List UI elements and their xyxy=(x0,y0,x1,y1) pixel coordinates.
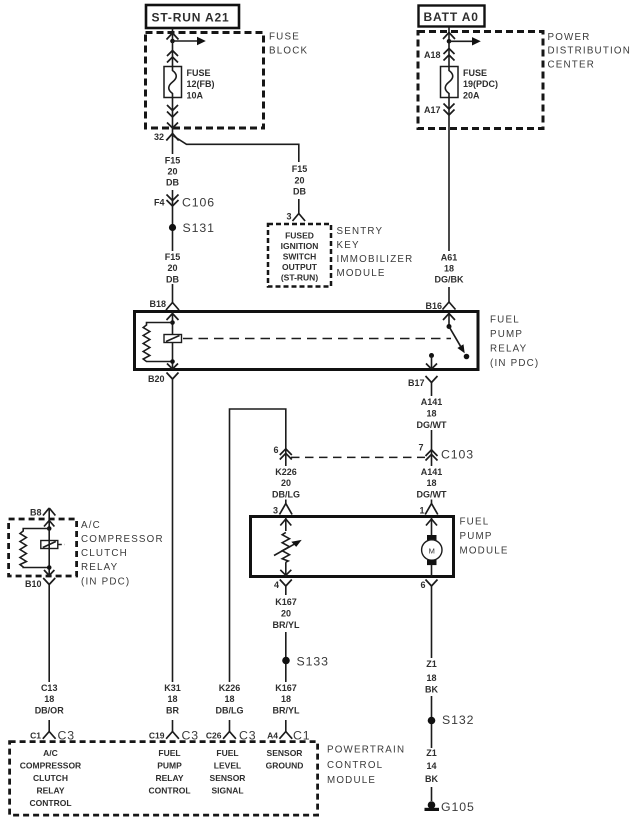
svg-text:Z1: Z1 xyxy=(426,659,437,669)
power distribution center dashed box xyxy=(418,32,543,129)
B20 exit arrow down xyxy=(167,364,178,370)
svg-text:14: 14 xyxy=(426,761,436,771)
coil bottom junction dot xyxy=(170,359,175,364)
C103 cavity 7 connector symbol xyxy=(426,450,438,461)
svg-text:CENTER: CENTER xyxy=(548,59,595,70)
relay title FUEL PUMP RELAY (IN PDC) xyxy=(490,315,539,370)
svg-text:1: 1 xyxy=(419,506,424,516)
svg-text:BR/YL: BR/YL xyxy=(273,620,301,630)
wire label Z1 14 BK xyxy=(420,748,443,787)
svg-text:B18: B18 xyxy=(149,299,166,309)
wire pin 4 down to PCM A4 xyxy=(285,586,287,732)
svg-text:BK: BK xyxy=(425,685,438,695)
PCM pin C19 connector symbol xyxy=(166,732,179,739)
svg-text:G105: G105 xyxy=(441,800,475,814)
wire B20 down to PCM C19 xyxy=(172,379,174,732)
A/C relay coil top dot xyxy=(47,526,52,531)
svg-text:B17: B17 xyxy=(408,378,425,388)
svg-text:S131: S131 xyxy=(183,221,215,235)
PCM pin A4 connector symbol xyxy=(279,732,292,739)
wire label K167 20 BR/YL xyxy=(268,595,304,632)
svg-text:18: 18 xyxy=(426,673,436,683)
svg-text:B10: B10 xyxy=(25,579,42,589)
svg-text:DG/WT: DG/WT xyxy=(417,420,447,430)
svg-text:18: 18 xyxy=(281,694,291,704)
fuse value labels FUSE 12(FB) 10A xyxy=(187,68,215,101)
wire label K31 18 BR xyxy=(158,682,187,720)
pin 3 entry arrow up xyxy=(280,519,291,526)
wire down from 32 xyxy=(172,128,174,303)
wire label A61 18 DG/BK xyxy=(432,251,466,287)
svg-text:18: 18 xyxy=(224,694,234,704)
svg-text:FUEL: FUEL xyxy=(158,748,180,758)
fuse value labels FUSE 19(PDC) 20A xyxy=(463,68,498,101)
junction dot xyxy=(170,39,175,44)
svg-text:SENSOR: SENSOR xyxy=(267,748,303,758)
svg-text:K31: K31 xyxy=(164,683,181,693)
B17 terminal dot xyxy=(429,353,434,358)
svg-text:ST-RUN A21: ST-RUN A21 xyxy=(152,11,230,25)
pin 1 entry arrow up xyxy=(426,519,437,526)
svg-text:Z1: Z1 xyxy=(426,748,437,758)
svg-text:BLOCK: BLOCK xyxy=(269,46,308,57)
svg-text:K167: K167 xyxy=(275,683,297,693)
svg-text:PUMP: PUMP xyxy=(460,531,493,542)
label POWER DISTRIBUTION CENTER xyxy=(548,32,632,70)
connector B20 symbol (Y) xyxy=(167,373,179,380)
wire pin 6 down to ground G105 xyxy=(431,586,433,801)
svg-text:CLUTCH: CLUTCH xyxy=(33,773,68,783)
connector chevrons A17 (double, down) xyxy=(444,104,455,116)
svg-text:IMMOBILIZER: IMMOBILIZER xyxy=(337,254,414,265)
PCM inner text A/C COMPRESSOR CLUTCH RELAY CONTROL xyxy=(20,748,81,808)
switch blade with arrowhead xyxy=(449,327,465,354)
svg-text:20: 20 xyxy=(281,609,291,619)
svg-text:DB/OR: DB/OR xyxy=(35,706,65,716)
svg-text:C1: C1 xyxy=(30,731,41,741)
svg-text:DB/LG: DB/LG xyxy=(272,490,300,500)
svg-text:K226: K226 xyxy=(219,683,241,693)
svg-text:10A: 10A xyxy=(187,91,204,101)
wire pin3 to sensor xyxy=(285,517,287,531)
svg-text:SENSOR: SENSOR xyxy=(210,773,246,783)
wire motor to pin 6 xyxy=(431,565,433,577)
splice S131 xyxy=(169,221,215,235)
svg-text:18: 18 xyxy=(167,694,177,704)
switch contact dot xyxy=(464,354,470,360)
wire label C13 18 DB/OR xyxy=(31,682,68,720)
relay coil (zigzag) xyxy=(143,323,172,362)
ground G105 xyxy=(425,800,475,814)
svg-text:SIGNAL: SIGNAL xyxy=(211,786,243,796)
power source box ST-RUN A21 xyxy=(146,5,239,28)
A/C compressor clutch relay dashed box xyxy=(9,519,77,576)
svg-text:FUSED: FUSED xyxy=(285,231,314,241)
wire label F15 20 DB (branch to SKIM) xyxy=(286,162,312,199)
wire to fuse 12 xyxy=(172,41,174,67)
wire ST-RUN A21 to fuse block xyxy=(172,28,174,41)
svg-text:BATT A0: BATT A0 xyxy=(424,10,479,24)
svg-text:M: M xyxy=(429,546,435,555)
svg-text:COMPRESSOR: COMPRESSOR xyxy=(81,534,164,545)
svg-text:A18: A18 xyxy=(424,50,441,60)
svg-text:A141: A141 xyxy=(421,397,443,407)
svg-text:A4: A4 xyxy=(267,731,278,741)
switch pivot dot xyxy=(447,324,452,329)
branch arrow right xyxy=(449,37,481,45)
relay contact (box with diagonal) xyxy=(164,335,182,343)
fuse 12(FB) symbol xyxy=(164,67,182,98)
connector B10 symbol (Y) xyxy=(43,578,55,585)
PCM pin C26 connector symbol xyxy=(223,732,236,739)
PCM title POWERTRAIN CONTROL MODULE xyxy=(327,745,405,787)
svg-text:OUTPUT: OUTPUT xyxy=(282,262,318,272)
svg-text:K226: K226 xyxy=(275,467,297,477)
svg-text:A/C: A/C xyxy=(81,520,101,531)
connector B8 symbol xyxy=(43,508,55,516)
svg-text:F4: F4 xyxy=(154,198,165,208)
svg-text:MODULE: MODULE xyxy=(460,546,509,557)
svg-text:B20: B20 xyxy=(148,374,165,384)
svg-text:SENTRY: SENTRY xyxy=(337,226,384,237)
A/C relay contact (box with diagonal) xyxy=(41,541,65,549)
wire B10 down to PCM C1 xyxy=(48,585,50,732)
svg-text:A141: A141 xyxy=(421,467,443,477)
junction dot xyxy=(447,39,452,44)
svg-text:K167: K167 xyxy=(275,597,297,607)
svg-text:CLUTCH: CLUTCH xyxy=(81,548,128,559)
svg-text:MODULE: MODULE xyxy=(327,775,376,786)
svg-text:C106: C106 xyxy=(182,196,215,210)
svg-text:SWITCH: SWITCH xyxy=(283,252,317,262)
svg-text:S132: S132 xyxy=(442,713,474,727)
PCM inner text FUEL LEVEL SENSOR SIGNAL xyxy=(210,748,246,796)
SKIM inner text FUSED IGNITION SWITCH OUTPUT (ST-RUN) xyxy=(281,231,319,283)
svg-text:4: 4 xyxy=(274,580,279,590)
svg-text:DB/LG: DB/LG xyxy=(216,706,244,716)
label FUSE BLOCK xyxy=(269,32,308,57)
branch wire from 32 to SKIM xyxy=(174,136,299,214)
branch arrow right xyxy=(173,37,206,45)
svg-text:3: 3 xyxy=(286,212,291,222)
svg-text:6: 6 xyxy=(273,445,278,455)
svg-text:GROUND: GROUND xyxy=(266,761,304,771)
SKIM pin 3 connector symbol xyxy=(293,214,306,222)
svg-text:F15: F15 xyxy=(292,164,308,174)
pin 6 connector symbol (Y) xyxy=(426,580,438,587)
pin 4 chevrons (double, down) xyxy=(280,570,291,576)
svg-text:FUEL: FUEL xyxy=(490,315,520,326)
svg-text:7: 7 xyxy=(418,443,423,453)
A/C relay entry arrow up xyxy=(44,521,54,527)
svg-text:RELAY: RELAY xyxy=(36,786,64,796)
fuel pump relay box xyxy=(135,312,479,370)
svg-text:MODULE: MODULE xyxy=(337,268,386,279)
svg-text:A61: A61 xyxy=(441,253,458,263)
svg-text:6: 6 xyxy=(420,580,425,590)
wire C103 to module pin 1 xyxy=(431,449,433,504)
coil top junction dot xyxy=(170,320,175,325)
svg-text:BR: BR xyxy=(166,706,179,716)
svg-text:DG/BK: DG/BK xyxy=(435,275,465,285)
svg-text:B8: B8 xyxy=(30,508,42,518)
A/C relay title xyxy=(81,520,164,588)
B16 entry arrow up xyxy=(443,314,455,321)
PCM pin C1 connector symbol xyxy=(43,732,56,739)
arrow up into fuse block xyxy=(167,33,179,40)
svg-text:PUMP: PUMP xyxy=(157,761,182,771)
splice S132 xyxy=(428,713,475,727)
wire pin1 to motor xyxy=(431,517,433,536)
svg-text:C26: C26 xyxy=(206,731,222,741)
svg-text:FUSE: FUSE xyxy=(463,68,487,78)
svg-text:(IN PDC): (IN PDC) xyxy=(81,577,130,588)
wire B16 into switch pivot xyxy=(448,312,450,327)
wire B8 into A/C relay xyxy=(48,508,50,529)
fuel level sensor feed: wire from PCM riser to C103 cavity 6 xyxy=(230,409,286,732)
svg-text:RELAY: RELAY xyxy=(490,344,527,355)
svg-text:20: 20 xyxy=(294,176,304,186)
svg-text:CONTROL: CONTROL xyxy=(29,798,71,808)
sentry key immobilizer module dashed box xyxy=(268,224,331,287)
svg-text:18: 18 xyxy=(426,478,436,488)
dashed actuation line coil to switch xyxy=(183,338,451,340)
connector C106 chevrons (double, down) xyxy=(167,195,179,207)
svg-text:FUEL: FUEL xyxy=(216,748,238,758)
wire to fuse 19 xyxy=(448,41,450,66)
svg-text:F15: F15 xyxy=(165,252,181,262)
powertrain control module dashed box xyxy=(10,742,318,816)
svg-text:PUMP: PUMP xyxy=(490,329,523,340)
wire label Z1 18 BK xyxy=(420,658,443,696)
svg-text:18: 18 xyxy=(44,694,54,704)
arrow up into PDC xyxy=(443,33,455,40)
fuel level sensor (variable resistor zigzag) xyxy=(282,532,289,562)
wire label K167 18 BR/YL xyxy=(268,682,304,720)
svg-text:A17: A17 xyxy=(424,105,441,115)
A/C relay coil (zigzag) xyxy=(20,529,49,568)
wire B18 through relay coil branch xyxy=(172,312,174,370)
connector B16 symbol xyxy=(443,302,456,310)
connector chevrons (double, up) xyxy=(167,51,178,63)
C103 cavity 6 connector symbol xyxy=(280,449,292,460)
splice S133 xyxy=(282,655,329,669)
svg-text:C103: C103 xyxy=(441,448,474,462)
pin 4 connector symbol (Y) xyxy=(280,580,292,587)
A/C relay exit arrow down xyxy=(44,570,54,576)
wire cavity 6 to module pin 3 xyxy=(285,448,287,504)
svg-text:20: 20 xyxy=(281,478,291,488)
svg-text:12(FB): 12(FB) xyxy=(187,79,215,89)
svg-text:BK: BK xyxy=(425,774,438,784)
SKIM title SENTRY KEY IMMOBILIZER MODULE xyxy=(337,226,414,279)
fuel pump motor M xyxy=(422,535,442,565)
svg-text:IGNITION: IGNITION xyxy=(281,241,319,251)
svg-text:A/C: A/C xyxy=(43,748,58,758)
arrow down at fuse block exit xyxy=(167,123,178,129)
svg-text:RELAY: RELAY xyxy=(155,773,183,783)
svg-text:20A: 20A xyxy=(463,91,480,101)
svg-text:CONTROL: CONTROL xyxy=(148,786,190,796)
svg-text:FUEL: FUEL xyxy=(460,517,490,528)
svg-text:LEVEL: LEVEL xyxy=(214,761,241,771)
fuse block dashed box xyxy=(146,33,264,129)
PCM inner text FUEL PUMP RELAY CONTROL xyxy=(148,748,190,796)
svg-text:DB: DB xyxy=(166,178,179,188)
PCM inner text SENSOR GROUND xyxy=(266,748,304,771)
wire B17 down to exit xyxy=(431,356,433,370)
wire through contact xyxy=(48,529,50,577)
svg-text:COMPRESSOR: COMPRESSOR xyxy=(20,761,81,771)
wire label F15 20 DB (left, lower) xyxy=(160,251,185,285)
svg-text:DB: DB xyxy=(293,187,306,197)
module pin 1 connector symbol xyxy=(425,504,438,515)
svg-text:DISTRIBUTION: DISTRIBUTION xyxy=(548,46,632,57)
A/C relay coil bottom dot xyxy=(47,565,52,570)
svg-text:(ST-RUN): (ST-RUN) xyxy=(281,273,318,283)
fuel pump module box xyxy=(251,517,454,577)
svg-text:KEY: KEY xyxy=(337,240,360,251)
wire label F15 20 DB (left, upper) xyxy=(160,154,185,190)
svg-text:20: 20 xyxy=(167,263,177,273)
svg-text:18: 18 xyxy=(444,264,454,274)
wire B17 down to C103 cavity 7 xyxy=(431,383,433,451)
svg-text:C19: C19 xyxy=(149,731,165,741)
svg-text:FUSE: FUSE xyxy=(269,32,300,43)
C103 dashed connector line xyxy=(291,456,425,458)
connector chevrons A18 (double, up) xyxy=(444,49,455,61)
wire label A141 18 DG/WT (upper) xyxy=(414,396,449,430)
variable resistor arrow xyxy=(274,540,302,556)
B18 entry arrow up xyxy=(167,314,179,321)
svg-text:B16: B16 xyxy=(425,301,442,311)
svg-text:POWERTRAIN: POWERTRAIN xyxy=(327,745,405,756)
svg-text:CONTROL: CONTROL xyxy=(327,760,383,771)
connector 32 symbol xyxy=(166,134,178,141)
svg-text:RELAY: RELAY xyxy=(81,562,118,573)
svg-text:(IN PDC): (IN PDC) xyxy=(490,358,539,369)
svg-text:DB: DB xyxy=(166,275,179,285)
wire BATT A0 into PDC xyxy=(448,27,450,42)
module title FUEL PUMP MODULE xyxy=(460,517,509,557)
svg-text:19(PDC): 19(PDC) xyxy=(463,79,498,89)
connector B17 symbol (Y) xyxy=(426,376,438,383)
svg-text:F15: F15 xyxy=(165,156,181,166)
fuse 19(PDC) symbol xyxy=(441,67,459,98)
B17 exit arrow down xyxy=(426,364,437,370)
wire sensor to pin 4 xyxy=(285,562,287,576)
svg-text:DG/WT: DG/WT xyxy=(417,490,447,500)
svg-text:C13: C13 xyxy=(41,683,58,693)
wire label K226 20 DB/LG xyxy=(268,466,304,500)
connector B18 symbol xyxy=(166,303,179,311)
svg-text:18: 18 xyxy=(426,409,436,419)
connector chevrons (double, down) xyxy=(167,105,178,117)
wire fuse 19 down to relay B16 xyxy=(448,98,450,303)
svg-text:S133: S133 xyxy=(297,655,329,669)
wire label K226 18 DB/LG xyxy=(211,682,248,720)
svg-text:POWER: POWER xyxy=(548,32,591,43)
svg-text:BR/YL: BR/YL xyxy=(273,706,301,716)
svg-text:FUSE: FUSE xyxy=(187,68,211,78)
svg-text:20: 20 xyxy=(167,167,177,177)
wire label A141 18 DG/WT (lower) xyxy=(414,466,449,500)
power source box BATT A0 xyxy=(419,6,485,27)
module pin 3 connector symbol xyxy=(280,504,293,515)
wire fuse to exit xyxy=(172,98,174,129)
svg-text:3: 3 xyxy=(273,506,278,516)
svg-text:32: 32 xyxy=(154,132,164,142)
